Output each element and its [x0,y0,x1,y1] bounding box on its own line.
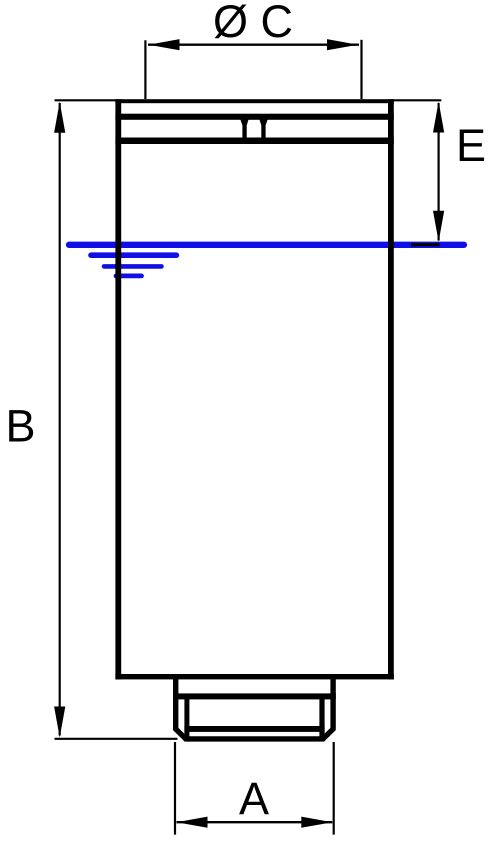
dimension C extension line right [360,40,362,99]
dimension A arrow left [177,817,208,828]
dimension E line [438,103,440,241]
dimension C arrow right [327,39,358,50]
tank body left wall [115,99,121,679]
outlet fitting inner right wall [319,696,324,742]
outlet fitting inner bottom line [184,726,324,732]
svg-text:Ø C: Ø C [213,0,293,47]
dimension E extension line top [393,99,441,101]
filler port left wall [240,119,249,138]
water level tick 2 [91,252,176,258]
dimension C line [148,44,359,46]
outlet fitting inner left wall [184,696,189,742]
dimension A extension line left [174,742,176,835]
tank bottom line [115,674,393,679]
water level tick 4 [116,273,142,278]
dimension A line [177,821,333,823]
outlet fitting top line [173,693,336,699]
tank body right wall [388,99,394,679]
filler port right wall [259,119,268,138]
water level tick 3 [104,264,162,269]
svg-text:E: E [456,120,486,171]
tank cap second line [115,114,393,120]
svg-text:A: A [239,773,269,824]
dimension B line [59,103,61,736]
outlet neck left wall [173,679,178,694]
svg-text:B: B [6,401,36,452]
dimension E arrow down [433,211,444,242]
dimension B arrow down [54,707,65,738]
tank cap third line [115,138,393,145]
dimension C extension line left [144,40,146,99]
water level main line [69,242,464,248]
dimension C arrow left [149,39,180,50]
outlet fitting outer profile [176,694,333,739]
dimension A arrow right [301,817,332,828]
dimension E extension segment bottom [411,243,440,246]
dimension A extension line right [333,742,335,835]
dimension B extension line bottom [55,738,178,740]
dimension B arrow up [54,102,65,133]
dimension B extension line top [55,99,116,101]
dimension E arrow up [433,102,444,133]
tank top cap line [115,99,393,103]
outlet neck right wall [330,679,335,694]
